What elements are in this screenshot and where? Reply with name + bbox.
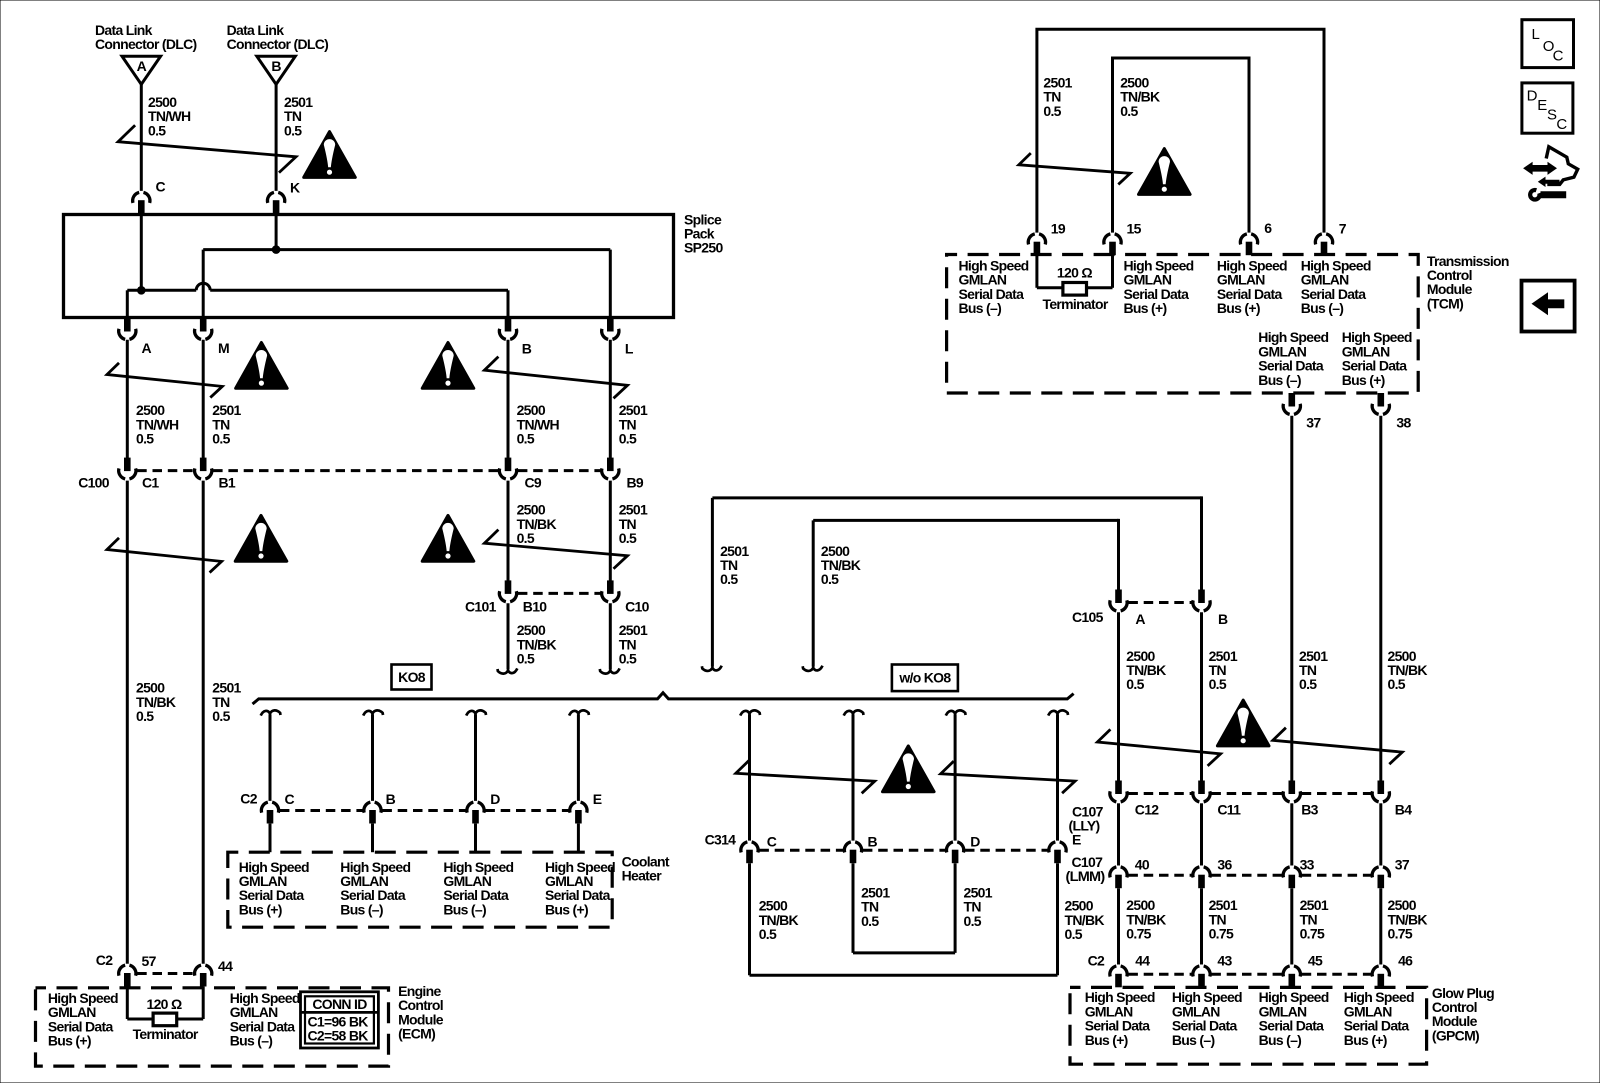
wire TCM inner loop pin6 [1113, 58, 1250, 233]
svg-text:Bus (+): Bus (+) [545, 901, 588, 917]
wire coolant branch 3 [474, 714, 477, 801]
connector triangle B (DLC) [257, 56, 296, 84]
wire C314-E to loop [1056, 863, 1059, 975]
zigzag across C105 wires [1097, 729, 1220, 766]
svg-text:Bus (–): Bus (–) [1172, 1032, 1215, 1048]
svg-text:120 Ω: 120 Ω [147, 996, 182, 1012]
icon DESC box [1522, 83, 1573, 133]
ECM dashed box [36, 988, 389, 1066]
wire LMM to GPCM [1379, 888, 1382, 964]
connector pin C9 [499, 458, 516, 479]
wire C105-A down [1117, 612, 1120, 780]
svg-text:C100: C100 [78, 475, 110, 491]
svg-text:0.5: 0.5 [212, 431, 230, 447]
wire coolant branch 4 hook [569, 710, 589, 715]
zigzag across A/M wires [107, 363, 222, 398]
connector pin 57 (ECM) [119, 965, 136, 986]
connector GPCM pin [1372, 966, 1389, 987]
svg-text:(LMM): (LMM) [1066, 868, 1105, 884]
warning triangle note [422, 515, 474, 561]
wire A vertical in splice [126, 290, 129, 318]
wire w/o KO8 branch 3 hook [946, 710, 966, 715]
svg-text:Bus (–): Bus (–) [1301, 300, 1344, 316]
connector GPCM C2 dashed line [1128, 973, 1191, 976]
svg-text:B9: B9 [627, 475, 644, 491]
connector pin B10 [499, 580, 516, 601]
svg-text:Bus (–): Bus (–) [959, 300, 1002, 316]
connector C101 dashed line [518, 592, 601, 595]
wire run to C105 pin B [712, 496, 1201, 499]
svg-text:D: D [970, 833, 980, 849]
wire C314-D to loop [954, 863, 957, 953]
svg-text:C2: C2 [96, 952, 113, 968]
connector C314 pin [844, 842, 861, 863]
svg-text:CONN ID: CONN ID [312, 996, 367, 1012]
wire w/o KO8 branch 1 hook [740, 710, 760, 715]
terminator resistor circuit ECM [126, 987, 129, 1019]
wire between LLY and LMM [1379, 803, 1382, 865]
svg-text:0.5: 0.5 [284, 122, 302, 138]
GPCM dashed box [1070, 987, 1427, 1064]
connector pin C [133, 192, 150, 213]
svg-text:0.75: 0.75 [1388, 926, 1413, 942]
svg-text:46: 46 [1398, 953, 1413, 969]
svg-text:0.5: 0.5 [136, 708, 154, 724]
svg-text:45: 45 [1308, 953, 1323, 969]
wire LMM to GPCM [1290, 888, 1293, 964]
svg-text:Connector (DLC): Connector (DLC) [227, 36, 329, 52]
zigzag across 37/38 wires [1273, 728, 1402, 765]
wire 2501 TN drop [711, 498, 714, 667]
wire K into splice [275, 214, 278, 250]
connector C100 dashed line [137, 469, 193, 472]
svg-text:43: 43 [1217, 953, 1232, 969]
connector C107 LLY dashed line [1128, 792, 1191, 795]
connector ECM C2 dashed line [137, 972, 193, 975]
svg-text:0.5: 0.5 [720, 571, 738, 587]
svg-text:C314: C314 [705, 832, 737, 848]
connector pin B1 [195, 458, 212, 479]
svg-text:B: B [386, 791, 396, 807]
svg-text:0.5: 0.5 [517, 431, 535, 447]
svg-text:B: B [1218, 611, 1228, 627]
connector pin 6 [1240, 234, 1257, 255]
warning triangle note [304, 132, 356, 178]
connector coolant pin [261, 802, 278, 823]
svg-text:0.5: 0.5 [1126, 676, 1144, 692]
svg-text:A: A [142, 340, 152, 356]
connector coolant pin [364, 802, 381, 823]
svg-text:C: C [156, 178, 166, 194]
connector C107 LMM pin [1110, 867, 1127, 888]
svg-text:7: 7 [1339, 221, 1347, 237]
svg-text:44: 44 [218, 958, 233, 974]
svg-text:0.5: 0.5 [148, 122, 166, 138]
warning triangle note [422, 343, 474, 389]
wire C into splice [140, 214, 143, 291]
svg-text:(TCM): (TCM) [1427, 295, 1463, 311]
connector C107 LMM dashed line [1128, 874, 1191, 877]
CONN ID table [301, 992, 379, 1048]
svg-text:B1: B1 [219, 475, 236, 491]
connector C105 dashed line [1128, 601, 1191, 604]
connector C314 dashed line [759, 849, 843, 852]
connector C314 pin [1049, 842, 1066, 863]
splice pack SP250 box [64, 215, 674, 318]
svg-text:0.5: 0.5 [1209, 676, 1227, 692]
wire loop B-D [853, 951, 955, 954]
svg-text:Bus (+): Bus (+) [1124, 300, 1167, 316]
svg-text:C9: C9 [525, 475, 542, 491]
connector GPCM pin [1110, 966, 1127, 987]
connector C107 LLY pin [1283, 781, 1300, 802]
connector pin 15 [1104, 234, 1121, 255]
connector C314 pin [741, 842, 758, 863]
splice lower bus A-B with hop over M [127, 289, 196, 292]
connector C107 LLY pin [1372, 781, 1389, 802]
wire B10 stub end [507, 603, 510, 669]
connector pin 44 (ECM) [195, 965, 212, 986]
w/o KO8 label box [892, 665, 958, 692]
svg-text:Bus (+): Bus (+) [1344, 1032, 1387, 1048]
zigzag across C9/B9 wires [484, 530, 627, 569]
svg-text:0.5: 0.5 [821, 571, 839, 587]
svg-text:15: 15 [1127, 221, 1142, 237]
wire B to C100 [507, 340, 510, 471]
wire loop C-E [750, 974, 1058, 977]
terminator resistor circuit TCM [1035, 256, 1038, 288]
svg-text:B: B [868, 833, 878, 849]
wire into coolant heater [474, 824, 477, 853]
svg-text:37: 37 [1395, 857, 1410, 873]
coolant heater dashed box [228, 852, 612, 927]
wire coolant branch 2 [371, 714, 374, 801]
svg-text:0.5: 0.5 [1043, 103, 1061, 119]
connector pin C10 [602, 580, 619, 601]
connector pin K [267, 192, 284, 213]
KO8 label box [392, 665, 432, 690]
svg-text:Heater: Heater [622, 868, 663, 884]
svg-text:Bus (+): Bus (+) [48, 1033, 91, 1049]
svg-text:Bus (–): Bus (–) [443, 901, 486, 917]
svg-text:SP250: SP250 [684, 240, 723, 256]
wire between LLY and LMM [1117, 803, 1120, 865]
svg-text:0.5: 0.5 [1120, 103, 1138, 119]
svg-text:120 Ω: 120 Ω [1057, 265, 1092, 281]
zigzag across D/E branch wires [941, 761, 1075, 793]
svg-text:57: 57 [142, 953, 157, 969]
wire 2500 TN/BK drop [812, 520, 815, 666]
svg-text:C10: C10 [625, 599, 649, 615]
svg-text:C105: C105 [1072, 609, 1104, 625]
svg-text:B10: B10 [523, 599, 547, 615]
svg-text:44: 44 [1135, 953, 1150, 969]
svg-text:0.5: 0.5 [517, 651, 535, 667]
junction dot C on lower bus [137, 286, 146, 295]
connector C2 dashed line (coolant) [280, 809, 363, 812]
connector C107 LLY pin [1110, 781, 1127, 802]
svg-text:B4: B4 [1395, 802, 1412, 818]
connector C107 LMM pin [1193, 867, 1210, 888]
wire M vertical in splice [202, 250, 205, 319]
wire into coolant heater [577, 824, 580, 853]
svg-text:Terminator: Terminator [1043, 296, 1109, 312]
connector C107 LLY pin [1193, 781, 1210, 802]
connector pin C105-B [1193, 590, 1210, 611]
svg-text:37: 37 [1306, 415, 1321, 431]
svg-text:C12: C12 [1135, 802, 1159, 818]
connector pin C1 [119, 458, 136, 479]
svg-text:40: 40 [1135, 857, 1150, 873]
svg-text:19: 19 [1051, 221, 1066, 237]
wire C314-C to loop [748, 863, 751, 975]
wire coolant branch 3 hook [466, 710, 486, 715]
svg-text:(LLY): (LLY) [1069, 818, 1100, 834]
svg-text:0.5: 0.5 [212, 708, 230, 724]
wire into coolant heater [269, 824, 272, 853]
svg-text:E: E [1537, 97, 1547, 114]
svg-text:C11: C11 [1217, 802, 1241, 818]
svg-text:0.5: 0.5 [136, 431, 154, 447]
svg-text:0.5: 0.5 [619, 530, 637, 546]
wire pin 38 down [1379, 416, 1382, 781]
svg-text:Bus (–): Bus (–) [1258, 372, 1301, 388]
wire coolant branch 1 [269, 714, 272, 801]
connector C107 LMM pin [1372, 867, 1389, 888]
connector C107 LMM pin [1283, 867, 1300, 888]
svg-text:Bus (–): Bus (–) [340, 901, 383, 917]
connector coolant pin [570, 802, 587, 823]
svg-text:K: K [290, 179, 300, 195]
connector pin A splice [119, 318, 136, 339]
wire LMM to GPCM [1117, 888, 1120, 964]
svg-text:0.5: 0.5 [759, 926, 777, 942]
connector pin C105-A [1110, 590, 1127, 611]
svg-text:0.5: 0.5 [861, 913, 879, 929]
svg-text:C2: C2 [1088, 953, 1105, 969]
svg-text:0.75: 0.75 [1126, 926, 1151, 942]
wire B1 down to ECM [202, 481, 205, 964]
svg-text:C: C [285, 791, 295, 807]
wire L to C100 [609, 340, 612, 471]
wire B vertical in splice [507, 290, 510, 318]
wire DLC-B to splice K [275, 84, 278, 191]
svg-text:Connector (DLC): Connector (DLC) [95, 36, 197, 52]
warning triangle note [883, 746, 935, 792]
svg-text:Bus (+): Bus (+) [1085, 1032, 1128, 1048]
svg-text:D: D [1527, 88, 1538, 105]
wire C105-B down [1200, 612, 1203, 780]
wire M to C100 [202, 340, 205, 471]
wire L vertical in splice [609, 250, 612, 319]
warning triangle note [1139, 149, 1191, 195]
svg-text:0.5: 0.5 [964, 913, 982, 929]
svg-text:C1: C1 [142, 475, 159, 491]
wire C314-B to loop [852, 863, 855, 953]
svg-text:0.5: 0.5 [1299, 676, 1317, 692]
connector triangle A (DLC) [122, 56, 161, 84]
wire coolant branch 4 [577, 714, 580, 801]
svg-text:Bus (–): Bus (–) [230, 1033, 273, 1049]
warning triangle note [236, 343, 288, 389]
connector pin 7 [1315, 234, 1332, 255]
svg-text:Bus (+): Bus (+) [1342, 372, 1385, 388]
svg-text:C: C [1556, 116, 1567, 133]
svg-text:0.5: 0.5 [1388, 676, 1406, 692]
wire w/o KO8 branch 4 hook [1048, 710, 1068, 715]
svg-text:(GPCM): (GPCM) [1432, 1027, 1479, 1043]
wire coolant branch 1 hook [261, 710, 281, 715]
svg-text:E: E [593, 791, 602, 807]
svg-text:0.5: 0.5 [619, 651, 637, 667]
svg-text:A: A [1135, 611, 1145, 627]
svg-text:0.5: 0.5 [1065, 926, 1083, 942]
svg-text:36: 36 [1217, 857, 1232, 873]
svg-text:w/o KO8: w/o KO8 [898, 669, 951, 685]
wire C10 stub end [609, 603, 612, 669]
svg-text:(ECM): (ECM) [398, 1026, 435, 1042]
svg-text:38: 38 [1396, 415, 1411, 431]
wire between LLY and LMM [1290, 803, 1293, 865]
svg-text:C101: C101 [465, 599, 497, 615]
warning triangle note [235, 515, 287, 561]
wire DLC-A to splice C [140, 84, 143, 191]
connector C314 pin [946, 842, 963, 863]
svg-text:D: D [490, 791, 500, 807]
connector pin B splice [499, 318, 516, 339]
connector coolant pin [467, 802, 484, 823]
wire C9 to C101 [507, 481, 510, 581]
svg-text:0.5: 0.5 [517, 530, 535, 546]
svg-text:M: M [218, 340, 229, 356]
svg-text:L: L [1532, 26, 1540, 43]
icon back arrow box [1522, 281, 1575, 332]
continuation zigzag across DLC wires [118, 125, 296, 172]
svg-text:L: L [625, 340, 634, 356]
svg-text:0.75: 0.75 [1300, 926, 1325, 942]
svg-text:C: C [1553, 48, 1564, 65]
zigzag across C/B branch wires [736, 761, 875, 794]
junction dot K on upper bus [272, 245, 281, 254]
TCM dashed box [947, 255, 1419, 394]
connector GPCM pin [1193, 966, 1210, 987]
svg-text:E: E [1072, 832, 1081, 848]
wire w/o KO8 branch 2 [852, 714, 855, 840]
wire w/o KO8 branch 2 hook [844, 710, 864, 715]
connector pin B9 [602, 458, 619, 479]
option bracket line [253, 693, 1074, 704]
svg-text:6: 6 [1264, 220, 1272, 236]
svg-text:0.5: 0.5 [619, 431, 637, 447]
svg-text:Bus (+): Bus (+) [1217, 300, 1260, 316]
connector GPCM pin [1283, 966, 1300, 987]
connector pin 19 [1028, 234, 1045, 255]
warning triangle note [1217, 700, 1269, 746]
wire C1 down to ECM [126, 481, 129, 964]
zigzag across C1/B1 wires [107, 538, 222, 573]
svg-text:KO8: KO8 [398, 669, 426, 685]
icon diagnostic arrows and wrench [1523, 162, 1557, 175]
connector pin 37 [1283, 393, 1300, 414]
svg-text:C2=58 BK: C2=58 BK [308, 1028, 369, 1044]
zigzag across B/L wires [484, 357, 627, 399]
wire A to C100 [126, 340, 129, 471]
wire into coolant heater [371, 824, 374, 853]
icon LOC box [1522, 20, 1574, 68]
wire run to C105 pin A [813, 519, 1118, 522]
wire w/o KO8 branch 3 [954, 714, 957, 840]
svg-text:33: 33 [1300, 857, 1315, 873]
svg-text:B: B [522, 340, 532, 356]
svg-text:Bus (+): Bus (+) [239, 901, 282, 917]
wire B9 to C101 [609, 481, 612, 581]
wire pin 37 down [1290, 416, 1293, 781]
svg-text:C: C [767, 833, 777, 849]
wire LMM to GPCM [1200, 888, 1203, 964]
splice upper bus M-L [203, 248, 610, 251]
wire TCM outer loop pin7 [1037, 29, 1324, 232]
svg-text:0.75: 0.75 [1209, 926, 1234, 942]
wire between LLY and LMM [1200, 803, 1203, 865]
connector pin M splice [195, 318, 212, 339]
svg-text:B: B [271, 58, 281, 74]
svg-text:B3: B3 [1301, 802, 1318, 818]
connector pin L splice [602, 318, 619, 339]
zigzag across TCM wires [1019, 153, 1131, 184]
wire w/o KO8 branch 4 [1056, 714, 1059, 840]
wire coolant branch 2 hook [363, 710, 383, 715]
svg-text:A: A [137, 58, 147, 74]
svg-text:Terminator: Terminator [133, 1026, 199, 1042]
wire w/o KO8 branch 1 [748, 714, 751, 840]
svg-text:C2: C2 [240, 790, 257, 806]
svg-text:Bus (–): Bus (–) [1259, 1032, 1302, 1048]
connector pin 38 [1372, 393, 1389, 414]
